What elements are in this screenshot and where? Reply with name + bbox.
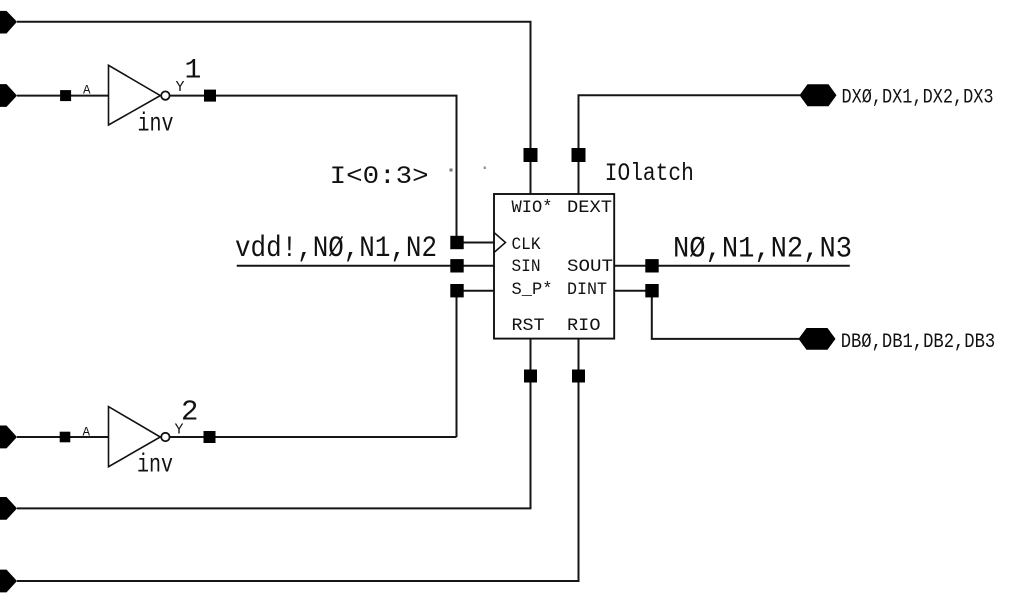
svg-text:Y: Y [176, 79, 185, 96]
input pin P1 [0, 11, 17, 34]
wire inv2 input [17, 436, 109, 438]
input pin P5 [0, 570, 17, 593]
wire inv1 input [17, 95, 109, 97]
svg-text:S_P*: S_P* [512, 280, 553, 300]
svg-text:A: A [83, 84, 91, 98]
tick artifact near bus [450, 169, 453, 172]
junction square J8 SOUT (652,265.8) [645, 259, 658, 272]
wire SOUT (N label underline) [614, 265, 850, 267]
junction square J13 (578.5,376) [572, 370, 585, 383]
input pin P4 [0, 497, 17, 520]
output pin DB hexagon [799, 328, 836, 350]
wire bus vertical to inv2 output [456, 291, 458, 437]
tick artifact near box [484, 167, 487, 170]
inverter U2 triangle [109, 407, 161, 467]
wire DEXT to DX pin [579, 95, 801, 194]
svg-text:DXØ,DX1,DX2,DX3: DXØ,DX1,DX2,DX3 [842, 87, 994, 110]
wire SIN (vdd label underline) [237, 265, 494, 267]
svg-text:CLK: CLK [512, 235, 541, 255]
wire DINT to DB pin [614, 291, 799, 339]
svg-text:A: A [83, 426, 91, 440]
input pin P3 [0, 426, 17, 449]
junction square J11 (209.5,437) [204, 431, 216, 443]
svg-text:RIO: RIO [567, 316, 601, 336]
svg-text:WIO*: WIO* [512, 198, 553, 218]
junction square J2 (578.5,155) [572, 148, 586, 162]
svg-text:NØ,N1,N2,N3: NØ,N1,N2,N3 [673, 233, 852, 267]
wire net1 top horizontal [17, 22, 531, 194]
junction square J12 (530.5,376) [524, 370, 537, 383]
clock triangle on CLK pin [494, 233, 506, 253]
wire RST to input4 [17, 339, 531, 509]
junction square J4 (210,95.6) [204, 90, 216, 102]
IOlatch box U3 [494, 194, 614, 339]
svg-text:SIN: SIN [512, 257, 541, 277]
wire S_P* stub [457, 290, 494, 292]
svg-text:RST: RST [512, 316, 545, 336]
svg-text:I<0:3>: I<0:3> [330, 162, 429, 191]
junction square J7 S_P* (457,290.7) [450, 284, 463, 297]
input pin P2 [0, 84, 17, 107]
svg-text:2: 2 [181, 396, 198, 429]
svg-text:DINT: DINT [567, 280, 607, 300]
junction square J6 SIN (457,265.8) [450, 259, 463, 272]
junction square J1 (530.5,155) [524, 148, 538, 162]
junction square J3 (65.6,95.6) [60, 90, 71, 101]
svg-text:DEXT: DEXT [567, 198, 612, 218]
junction square J9 DINT (652,290.7) [645, 284, 658, 297]
wire RIO to input5 [17, 339, 579, 581]
svg-text:DBØ,DB1,DB2,DB3: DBØ,DB1,DB2,DB3 [841, 331, 996, 354]
wire CLK stub [457, 242, 494, 244]
svg-text:1: 1 [185, 56, 202, 87]
wire inv2 output [170, 436, 457, 438]
svg-text:inv: inv [138, 109, 174, 139]
wire inv1 output to bus [170, 96, 457, 237]
inverter U1 bubble [161, 91, 169, 99]
output pin DX hexagon [800, 84, 837, 106]
svg-text:IOlatch: IOlatch [605, 159, 694, 188]
svg-text:vdd!,NØ,N1,N2: vdd!,NØ,N1,N2 [235, 232, 437, 266]
svg-text:SOUT: SOUT [567, 257, 613, 277]
inverter U2 bubble [161, 433, 169, 441]
junction square J5 CLK (457,242.5) [450, 236, 463, 249]
junction square J10 (65,437) [60, 432, 71, 443]
inverter U1 triangle [109, 65, 161, 125]
svg-text:inv: inv [137, 450, 173, 480]
